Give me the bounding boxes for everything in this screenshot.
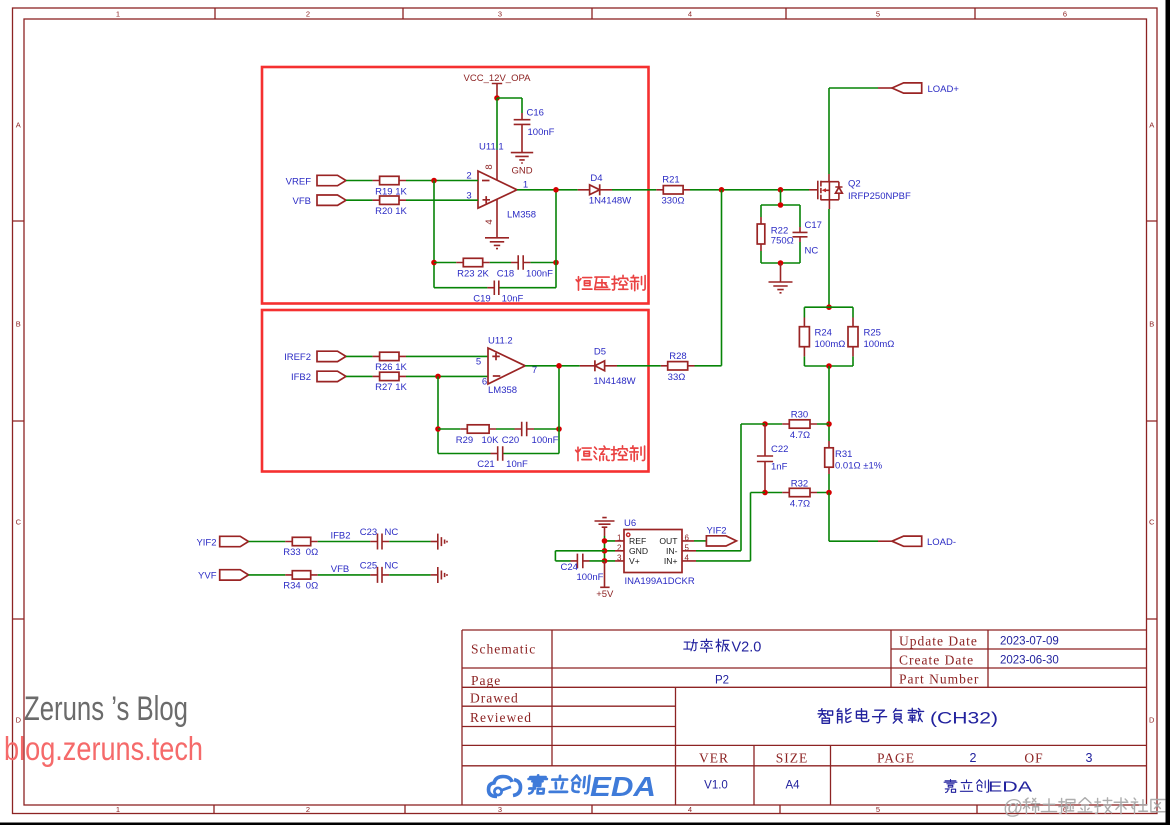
- port VFB: [293, 195, 346, 207]
- node gate/R22 tie: [778, 187, 784, 193]
- svg-text:C: C: [1149, 518, 1155, 527]
- JLC EDA logo: [489, 777, 521, 797]
- svg-text:U11.2: U11.2: [488, 336, 513, 347]
- ground GND below C16: [511, 153, 533, 177]
- resistor R33 0R: [283, 537, 318, 558]
- svg-text:C19: C19: [473, 293, 490, 304]
- resistor R26 1K: [373, 352, 408, 373]
- node feedback left loop2: [435, 426, 441, 432]
- svg-text:GND: GND: [629, 546, 648, 556]
- node R32 left / C22 bottom: [762, 490, 768, 496]
- svg-text:3: 3: [498, 805, 502, 814]
- svg-text:10nF: 10nF: [506, 459, 528, 470]
- svg-text:100nF: 100nF: [532, 435, 559, 446]
- constant-current label 恒流控制: [576, 446, 645, 461]
- svg-text:R20 1K: R20 1K: [375, 206, 407, 217]
- wire feedback row R23/C18: [434, 262, 556, 264]
- svg-text:C20: C20: [502, 435, 519, 446]
- sheet title 功率板V2.0: [684, 639, 730, 652]
- svg-text:8: 8: [484, 164, 495, 169]
- svg-text:NC: NC: [385, 527, 399, 538]
- svg-text:1: 1: [116, 10, 120, 19]
- wire R27 to op-amp pin 6: [406, 375, 488, 377]
- svg-text:2: 2: [306, 10, 310, 19]
- capacitor C25 NC: [360, 560, 399, 583]
- capacitor C16: [514, 108, 555, 153]
- wire feedback left vertical loop2: [437, 376, 439, 453]
- wire to LOAD-: [829, 493, 878, 542]
- svg-text:R32: R32: [791, 478, 808, 489]
- wire YVF to R34: [249, 574, 286, 576]
- svg-text:5: 5: [476, 357, 481, 368]
- svg-text:R28: R28: [669, 351, 686, 362]
- svg-text:10nF: 10nF: [502, 293, 524, 304]
- svg-text:IN-: IN-: [666, 546, 678, 556]
- svg-text:VER: VER: [699, 751, 729, 766]
- resistor R28 33: [661, 351, 695, 383]
- wire VCC to C16: [497, 98, 522, 113]
- svg-text:100nF: 100nF: [526, 268, 553, 279]
- wire R21 to Q2 gate: [690, 189, 809, 191]
- svg-text:5: 5: [876, 805, 880, 814]
- svg-text:0.01Ω ±1%: 0.01Ω ±1%: [835, 460, 883, 471]
- node feedback left: [431, 260, 437, 266]
- ground right row2: [431, 567, 447, 583]
- diode D4 1N4148W: [578, 173, 631, 207]
- port IREF2: [284, 351, 346, 363]
- svg-text:Update Date: Update Date: [899, 633, 978, 648]
- R22/C17 bottom rail: [761, 262, 800, 264]
- port VREF: [286, 175, 346, 187]
- resistor R21 330: [656, 175, 690, 207]
- constant-current control frame: [262, 310, 649, 472]
- svg-text:Zeruns ’s Blog: Zeruns ’s Blog: [24, 690, 188, 728]
- svg-text:Create Date: Create Date: [899, 652, 974, 667]
- wire C21 row: [438, 453, 559, 455]
- ground below op-amp pin 4: [485, 238, 509, 249]
- node R30/R31: [826, 421, 832, 427]
- svg-text:4: 4: [688, 805, 692, 814]
- node VCC junction: [494, 95, 500, 101]
- svg-text:VFB: VFB: [293, 196, 311, 207]
- svg-text:(CH32): (CH32): [930, 709, 998, 728]
- svg-text:VFB: VFB: [331, 564, 349, 575]
- constant-voltage label 恒压控制: [576, 275, 645, 290]
- svg-text:YVF: YVF: [198, 571, 217, 582]
- wire YIF2 to R33: [249, 541, 286, 543]
- ground below R22: [769, 263, 793, 293]
- wire kelvin sense to U6 IN-: [696, 424, 765, 551]
- svg-text:4: 4: [688, 10, 692, 19]
- capacitor C23 NC: [360, 527, 399, 550]
- svg-text:10K: 10K: [482, 435, 500, 446]
- svg-text:PAGE: PAGE: [877, 751, 915, 766]
- svg-text:P2: P2: [715, 674, 729, 686]
- svg-text:R27 1K: R27 1K: [375, 382, 407, 393]
- svg-text:1N4148W: 1N4148W: [593, 376, 635, 387]
- svg-text:U6: U6: [624, 518, 636, 529]
- svg-text:blog.zeruns.tech: blog.zeruns.tech: [4, 730, 203, 767]
- svg-text:NC: NC: [385, 560, 399, 571]
- svg-text:C16: C16: [527, 108, 544, 119]
- svg-text:SIZE: SIZE: [776, 751, 809, 766]
- svg-text:C25: C25: [360, 560, 377, 571]
- capacitor C22 1nF: [757, 424, 789, 493]
- svg-text:1nF: 1nF: [771, 462, 788, 473]
- net VCC_12V_OPA: [464, 73, 532, 98]
- svg-text:VREF: VREF: [286, 176, 312, 187]
- ground right row1: [431, 534, 447, 550]
- wire R20 to op-amp pin 3: [406, 199, 478, 201]
- wire C25 to ground: [389, 574, 430, 576]
- node inverting input: [431, 178, 437, 184]
- svg-text:V1.0: V1.0: [704, 780, 728, 792]
- op-amp U11.1 LM358: [466, 142, 536, 238]
- node R24R25 bottom: [826, 363, 832, 369]
- svg-text:LM358: LM358: [488, 385, 517, 396]
- resistor R22 750: [757, 205, 794, 263]
- svg-text:V+: V+: [629, 556, 640, 566]
- svg-text:Reviewed: Reviewed: [470, 710, 532, 725]
- wire U6 OUT to YIF2: [694, 540, 706, 542]
- resistor R20 1K: [373, 196, 408, 217]
- ground above U6: [595, 518, 615, 536]
- svg-text:Page: Page: [471, 673, 501, 688]
- svg-text:YIF2: YIF2: [706, 526, 726, 537]
- wire op-amp output: [517, 189, 578, 191]
- port LOAD+: [829, 83, 959, 95]
- svg-text:4.7Ω: 4.7Ω: [790, 430, 810, 441]
- project title 智能电子负载（CH32）: [818, 708, 924, 723]
- svg-text:100mΩ: 100mΩ: [815, 339, 846, 350]
- svg-text:100nF: 100nF: [528, 127, 555, 138]
- svg-text:R33: R33: [283, 547, 300, 558]
- svg-text:100mΩ: 100mΩ: [864, 339, 895, 350]
- svg-text:3: 3: [1086, 751, 1093, 765]
- wire VREF to R19: [346, 180, 373, 182]
- svg-text:D: D: [16, 716, 22, 725]
- svg-text:R21: R21: [662, 175, 679, 186]
- node feedback right: [553, 260, 559, 266]
- watermark juejin: [1003, 797, 1165, 819]
- power +5V below U6: [596, 561, 614, 600]
- port IFB2: [291, 371, 346, 383]
- wire D4 to R21: [612, 189, 656, 191]
- resistor R30 4.7: [765, 410, 829, 442]
- svg-text:A: A: [1149, 121, 1154, 130]
- node output: [553, 187, 559, 193]
- svg-text:LOAD-: LOAD-: [927, 537, 956, 548]
- svg-text:R23 2K: R23 2K: [457, 268, 489, 279]
- svg-text:U11.1: U11.1: [479, 142, 504, 153]
- svg-text:OF: OF: [1024, 751, 1043, 766]
- svg-text:R24: R24: [815, 327, 832, 338]
- svg-text:YIF2: YIF2: [196, 537, 216, 548]
- svg-text:B: B: [16, 320, 21, 329]
- node feedback right loop2: [556, 426, 562, 432]
- wire feedback row R29/C20: [438, 428, 559, 430]
- wire kelvin sense to U6 IN+: [696, 493, 765, 561]
- svg-text:6: 6: [482, 377, 487, 388]
- resistor R24 100m: [799, 307, 845, 366]
- resistor R19 1K: [373, 176, 408, 197]
- svg-text:2023-06-30: 2023-06-30: [1000, 655, 1059, 667]
- svg-text:IREF2: IREF2: [284, 352, 311, 363]
- svg-text:5: 5: [876, 10, 880, 19]
- svg-text:2023-07-09: 2023-07-09: [1000, 636, 1059, 648]
- svg-text:B: B: [1149, 320, 1154, 329]
- svg-text:D4: D4: [590, 173, 602, 184]
- node pin6 feedback tie: [435, 374, 441, 380]
- svg-text:IN+: IN+: [664, 556, 678, 566]
- svg-text:IFB2: IFB2: [291, 372, 311, 383]
- port YIF2 (output): [706, 526, 736, 547]
- node gate/R28 tie: [719, 187, 725, 193]
- svg-text:Drawed: Drawed: [470, 691, 519, 706]
- resistor R32 4.7: [765, 478, 829, 509]
- svg-text:330Ω: 330Ω: [662, 196, 685, 207]
- svg-text:C21: C21: [477, 459, 494, 470]
- node output loop2: [556, 363, 562, 369]
- wire U6 left pins bus: [605, 536, 616, 561]
- svg-text:+5V: +5V: [596, 589, 614, 600]
- svg-text:LOAD+: LOAD+: [928, 84, 960, 95]
- svg-text:100nF: 100nF: [577, 572, 604, 583]
- R22/C17 top rail: [761, 204, 800, 206]
- svg-text:GND: GND: [511, 166, 532, 177]
- svg-text:4.7Ω: 4.7Ω: [790, 499, 810, 510]
- svg-text:2: 2: [306, 805, 310, 814]
- svg-text:R30: R30: [791, 410, 808, 421]
- resistor R31 0.01: [825, 441, 883, 493]
- svg-text:R29: R29: [456, 435, 473, 446]
- svg-text:C23: C23: [360, 527, 377, 538]
- svg-text:OUT: OUT: [659, 536, 678, 546]
- svg-text:0Ω: 0Ω: [306, 581, 318, 592]
- node R30 left / C22 top: [762, 421, 768, 427]
- wire VCC to op-amp pin 8: [496, 98, 498, 150]
- capacitor C24 100nF: [555, 551, 604, 583]
- svg-text:V2.0: V2.0: [732, 640, 762, 656]
- svg-text:IFB2: IFB2: [330, 531, 350, 542]
- capacitor C19 10nF: [473, 281, 523, 305]
- svg-text:Schematic: Schematic: [471, 642, 536, 657]
- transistor Q2 IRFP250NPBF: [809, 174, 911, 209]
- port LOAD-: [878, 536, 956, 548]
- wire VFB to R20: [346, 199, 373, 201]
- svg-text:Q2: Q2: [848, 178, 861, 189]
- svg-text:R25: R25: [864, 327, 881, 338]
- wire IFB2 to R27: [346, 375, 373, 377]
- resistor R27 1K: [373, 372, 408, 393]
- svg-text:33Ω: 33Ω: [668, 372, 686, 383]
- IC U6 INA199A1DCKR: [615, 518, 696, 587]
- svg-text:1: 1: [523, 179, 528, 190]
- svg-text:VCC_12V_OPA: VCC_12V_OPA: [464, 73, 532, 84]
- wire C23 to ground: [389, 541, 430, 543]
- port YVF: [198, 570, 248, 582]
- wire IREF2 to R26: [346, 355, 373, 357]
- svg-text:C: C: [16, 518, 22, 527]
- svg-text:3: 3: [498, 10, 502, 19]
- svg-text:1N4148W: 1N4148W: [589, 196, 631, 207]
- svg-text:C22: C22: [771, 444, 788, 455]
- svg-text:EDA: EDA: [988, 779, 1032, 796]
- svg-text:EDA: EDA: [590, 771, 656, 802]
- diode D5 1N4148W: [580, 347, 636, 387]
- wire C19 row: [434, 287, 556, 289]
- svg-text:REF: REF: [629, 536, 646, 546]
- svg-text:R34: R34: [283, 581, 300, 592]
- svg-text:C17: C17: [805, 220, 822, 231]
- capacitor C17 NC: [793, 205, 822, 263]
- svg-text:A: A: [16, 121, 21, 130]
- wire D5 to R28: [617, 365, 661, 367]
- wire down to sense network: [828, 366, 830, 441]
- svg-text:C18: C18: [497, 268, 514, 279]
- svg-text:0Ω: 0Ω: [306, 547, 318, 558]
- net label IFB2 / wire R33 to C23: [318, 541, 371, 543]
- wire Q2 source down: [828, 209, 830, 307]
- svg-text:4: 4: [484, 219, 495, 224]
- wire op-amp2 output: [525, 365, 580, 367]
- svg-text:D: D: [1149, 716, 1155, 725]
- svg-text:@: @: [1003, 797, 1023, 819]
- wire output vertical loop2: [558, 366, 560, 454]
- resistor R34 0R: [283, 571, 318, 592]
- resistor R23 2K: [456, 258, 489, 279]
- svg-text:1: 1: [116, 805, 120, 814]
- svg-text:C24: C24: [561, 562, 578, 573]
- svg-text:D5: D5: [594, 347, 606, 358]
- svg-text:750Ω: 750Ω: [771, 235, 794, 246]
- node Q2 source / R24R25 top: [826, 304, 832, 310]
- svg-text:NC: NC: [805, 245, 819, 256]
- wire R19 to op-amp pin 2: [406, 180, 478, 182]
- net label VFB / wire R34 to C25: [318, 574, 371, 576]
- capacitor C20 100nF: [502, 422, 559, 446]
- wire gate node to R22: [780, 190, 782, 205]
- wire output vertical to feedback: [555, 190, 557, 288]
- svg-text:2: 2: [970, 751, 977, 765]
- svg-text:INA199A1DCKR: INA199A1DCKR: [625, 576, 695, 587]
- wire R28 up to gate line: [695, 190, 722, 366]
- resistor R25 100m: [848, 307, 894, 366]
- screenshot black edge bars: [1166, 0, 1170, 825]
- resistor R29 10K: [456, 425, 499, 446]
- capacitor C18 100nF: [497, 255, 553, 279]
- constant-voltage control frame: [262, 67, 649, 304]
- wire R26 to op-amp pin 5: [406, 355, 488, 357]
- capacitor C21 10nF: [477, 446, 528, 470]
- svg-text:R31: R31: [835, 449, 852, 460]
- port YIF2 (input row): [196, 536, 248, 548]
- wire feedback left vertical: [433, 181, 435, 288]
- svg-text:6: 6: [1063, 10, 1067, 19]
- svg-text:LM358: LM358: [507, 210, 536, 221]
- op-amp U11.2 LM358: [476, 336, 537, 397]
- wire LOAD+ to Q2 drain: [828, 88, 830, 174]
- svg-text:7: 7: [532, 365, 537, 376]
- svg-text:IRFP250NPBF: IRFP250NPBF: [848, 191, 911, 202]
- company cell 嘉立创EDA: [944, 780, 988, 793]
- R24/R25 parallel rails: [804, 307, 853, 366]
- svg-text:Part Number: Part Number: [899, 671, 979, 686]
- node R31/R32: [826, 490, 832, 496]
- svg-text:A4: A4: [785, 780, 800, 792]
